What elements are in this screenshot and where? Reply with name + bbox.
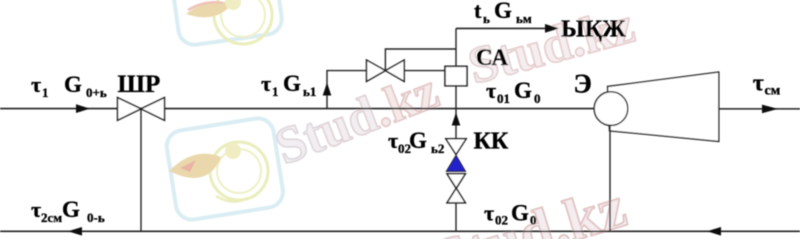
svg-text:t: t (474, 0, 482, 23)
flow arrow on supply pipe (76, 104, 90, 113)
svg-text:G: G (409, 128, 427, 153)
wire CA down to supply pipe (455, 86, 457, 109)
flow arrow up on riser (323, 83, 332, 96)
svg-text:СА: СА (476, 45, 508, 70)
svg-text:КК: КК (474, 129, 509, 155)
wire supply pipe down to check valve (455, 109, 457, 139)
label tau01 G0 (486, 78, 541, 106)
riser wire to control valve (327, 71, 367, 109)
watermark bird logo top (168, 0, 284, 47)
svg-text:τ: τ (31, 72, 41, 97)
svg-text:G: G (511, 201, 529, 226)
svg-text:0+ь: 0+ь (86, 85, 107, 100)
label tau cm (753, 70, 781, 98)
wire ShR to return pipe (140, 109, 142, 232)
control valve (367, 60, 405, 81)
flow arrow on return pipe right (707, 227, 721, 236)
label tau02 Gb2 (388, 128, 444, 156)
svg-text:τ: τ (486, 78, 496, 103)
check valve KK lower bowtie (447, 174, 465, 203)
wire ejector suction to return pipe (609, 125, 611, 231)
watermark bird logo middle (164, 116, 285, 222)
label tb Gbm (474, 0, 532, 26)
wire control valve to regulator CA (404, 70, 445, 72)
wire CA up (455, 28, 457, 65)
ejector nozzle circle (594, 92, 628, 126)
flow arrow up to supply pipe (452, 113, 461, 126)
svg-text:2см: 2см (41, 210, 62, 225)
svg-text:ьм: ьм (516, 11, 532, 26)
valve ShR (118, 98, 165, 121)
svg-text:G: G (514, 78, 532, 103)
svg-text:τ: τ (484, 201, 494, 226)
svg-text:τ: τ (388, 128, 398, 153)
svg-text:1: 1 (272, 84, 279, 99)
svg-text:G: G (283, 71, 301, 96)
svg-text:0: 0 (534, 91, 541, 106)
svg-text:τ: τ (261, 71, 271, 96)
svg-text:G: G (494, 0, 512, 23)
arrow to YKZh (545, 24, 559, 33)
label tau02 G0 (484, 201, 537, 228)
svg-text:Э: Э (574, 69, 592, 99)
svg-text:τ: τ (31, 197, 41, 222)
label tau1 Gb1 (261, 71, 316, 99)
svg-text:G: G (64, 72, 82, 97)
check valve KK blue triangle (446, 155, 465, 171)
check valve KK upper triangle (446, 139, 466, 155)
flow arrow outlet (762, 105, 778, 114)
actuator linkage wire (385, 49, 456, 71)
flow arrow on return pipe left (68, 227, 82, 236)
supply pipe (top) (0, 108, 595, 110)
mixed flow outlet wire (719, 108, 800, 110)
label tau2cm G0-b (31, 197, 105, 225)
svg-text:ь2: ь2 (431, 141, 444, 156)
svg-text:ЫҚЖ: ЫҚЖ (561, 17, 626, 43)
svg-text:02: 02 (495, 213, 508, 228)
svg-text:τ: τ (753, 70, 764, 96)
return pipe (bottom) (0, 230, 800, 232)
svg-text:1: 1 (42, 85, 49, 100)
wire to YKZh (456, 27, 546, 29)
regulator box CA (445, 66, 467, 86)
svg-text:0: 0 (530, 213, 537, 228)
svg-text:ШР: ШР (118, 71, 161, 98)
svg-text:01: 01 (497, 91, 510, 106)
svg-text:G: G (62, 197, 80, 222)
wire check valve to return pipe (455, 203, 457, 231)
svg-text:ь1: ь1 (303, 84, 316, 99)
label tau1 G0+b (31, 72, 107, 100)
svg-text:ь: ь (483, 11, 490, 26)
svg-text:0-ь: 0-ь (87, 210, 105, 225)
ejector cone (608, 72, 719, 141)
svg-text:см: см (765, 84, 781, 99)
